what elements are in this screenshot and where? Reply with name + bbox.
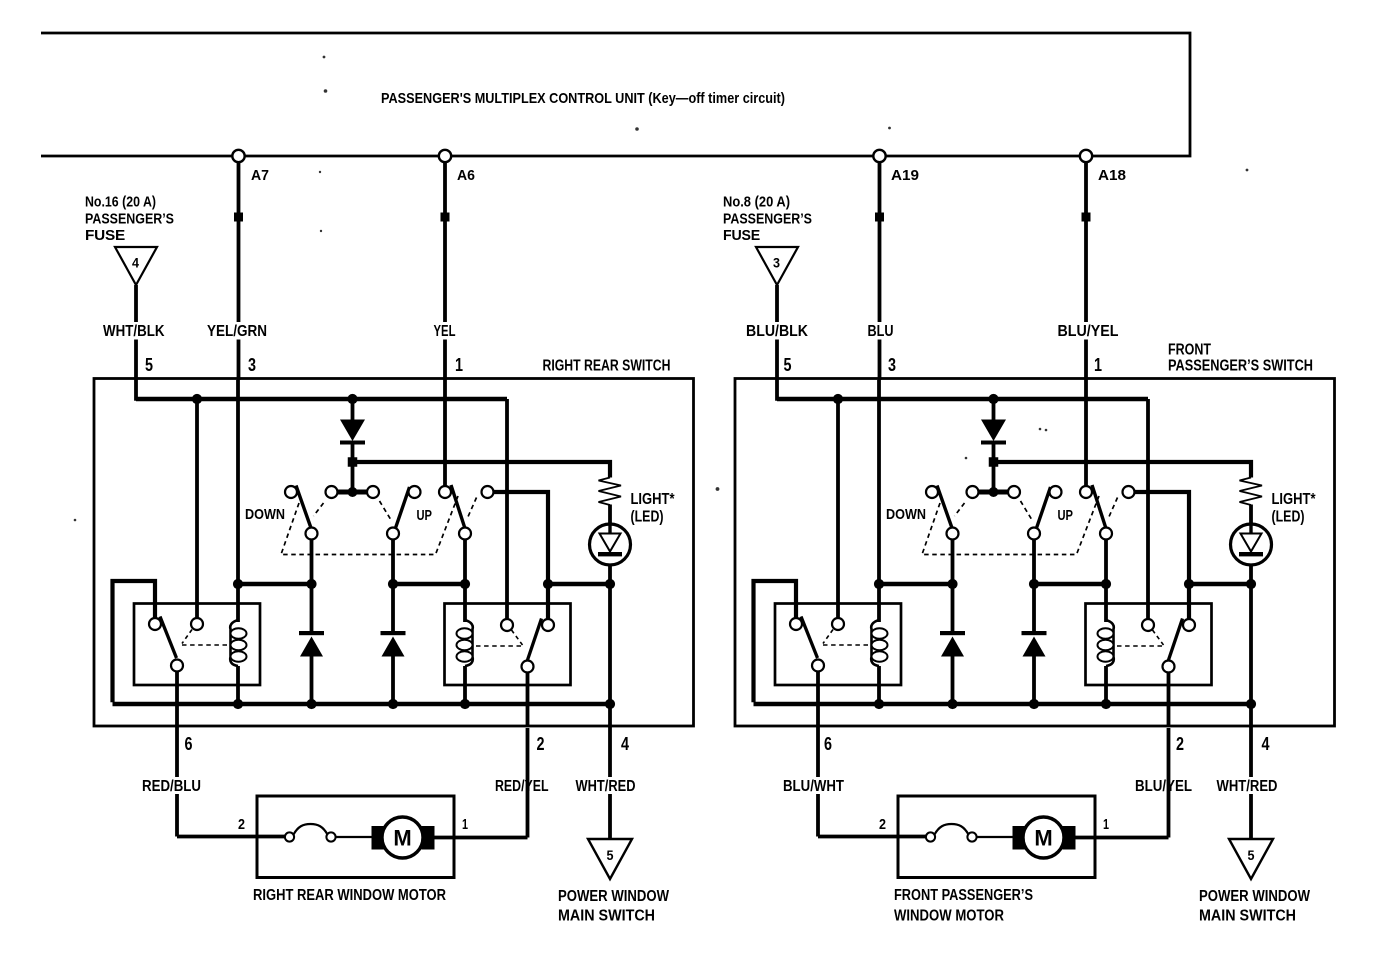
svg-text:FRONT PASSENGER’S: FRONT PASSENGER’S (894, 887, 1033, 904)
junction A19 wire (875, 213, 884, 222)
wire c6 to relay B top contact (1135, 492, 1189, 619)
relay B box (1086, 604, 1212, 686)
wire d2 down (1032, 540, 1036, 632)
diode D1 (top) (351, 399, 355, 420)
svg-text:PASSENGER’S SWITCH: PASSENGER’S SWITCH (1168, 358, 1313, 375)
wire fuse to switch pin 5 (775, 285, 779, 401)
relay A contact 2 (191, 618, 203, 630)
connector A6 (439, 150, 451, 162)
contact d2 (1028, 528, 1040, 540)
contact c4 (409, 486, 421, 498)
svg-text:MAIN SWITCH: MAIN SWITCH (558, 908, 655, 925)
diode D1 (top) (992, 399, 996, 420)
wire d2 down (391, 540, 395, 632)
junction d1 / mid bus (947, 579, 957, 589)
svg-text:WHT/BLK: WHT/BLK (103, 323, 165, 340)
contact d3 (459, 528, 471, 540)
connector A7 (232, 150, 244, 162)
wire pin5 bus (136, 397, 507, 402)
switch box: RIGHT REAR SWITCH (94, 379, 694, 727)
svg-text:4: 4 (1262, 734, 1270, 754)
diode D3 (1022, 631, 1047, 635)
svg-text:RIGHT REAR WINDOW MOTOR: RIGHT REAR WINDOW MOTOR (253, 887, 446, 904)
wire relay B common to pin 2 (526, 673, 530, 726)
relay B blade (1169, 619, 1183, 661)
svg-text:M: M (1034, 826, 1052, 851)
svg-text:No.8 (20 A): No.8 (20 A) (723, 195, 790, 211)
svg-text:LIGHT*: LIGHT* (1272, 491, 1317, 508)
diode D3 (381, 631, 406, 635)
junction diode D2 / bottom bus (306, 699, 316, 709)
LED indicator lamp (1231, 524, 1272, 565)
svg-text:DOWN: DOWN (245, 506, 285, 523)
wire mid bus segment 3 (548, 582, 610, 587)
svg-text:2: 2 (1176, 734, 1184, 754)
wire pin6 to motor (818, 835, 927, 839)
relay A common contact (171, 660, 183, 672)
svg-text:DOWN: DOWN (886, 506, 926, 523)
wire A7 / coil A (877, 380, 881, 622)
wire relay A feed (836, 399, 840, 618)
junction coil A / mid bus (874, 579, 884, 589)
relay B coil (465, 620, 473, 666)
svg-text:BLU/BLK: BLU/BLK (746, 323, 808, 340)
junction d2 / mid bus (1029, 579, 1039, 589)
relay B contact 2 (542, 619, 554, 631)
relay A box (775, 604, 901, 686)
relay A common contact (812, 660, 824, 672)
svg-text:YEL/GRN: YEL/GRN (207, 323, 267, 340)
wire mid bus segment 2 (1034, 582, 1106, 587)
wire motor to pin 2 (1076, 836, 1169, 840)
contact c6 (1123, 486, 1135, 498)
svg-text:No.16 (20 A): No.16 (20 A) (85, 195, 156, 211)
switch blade DOWN (937, 486, 952, 529)
svg-text:YEL: YEL (434, 323, 456, 340)
svg-text:PASSENGER'S MULTIPLEX CONTROL: PASSENGER'S MULTIPLEX CONTROL UNIT (Key—… (381, 90, 785, 107)
fuse symbol 4 (115, 247, 157, 285)
junction d3 / mid bus (460, 579, 470, 589)
svg-text:WHT/RED: WHT/RED (1217, 778, 1278, 795)
wire mid bus segment 2 (393, 582, 465, 587)
relay A coil (230, 620, 238, 666)
svg-text:BLU/YEL: BLU/YEL (1135, 778, 1192, 795)
junction A7 wire (234, 213, 243, 222)
wire d3 to relay B coil (1104, 540, 1108, 622)
svg-text:FRONT: FRONT (1168, 342, 1211, 359)
svg-text:(LED): (LED) (631, 509, 664, 526)
junction LED wire / bottom bus (605, 699, 615, 709)
scan artifacts (323, 56, 326, 59)
wire bottom bus (113, 702, 611, 707)
wire pin6 to motor (177, 835, 286, 839)
svg-text:MAIN SWITCH: MAIN SWITCH (1199, 908, 1296, 925)
bottom wire colour labels (139, 777, 205, 794)
wire light feed (994, 462, 1252, 478)
junction coil B / bottom bus (1101, 699, 1111, 709)
junction diode D3 / bottom bus (388, 699, 398, 709)
switch blade AUTO (451, 485, 465, 527)
svg-text:BLU/YEL: BLU/YEL (1058, 323, 1119, 340)
window motor box: FRONT PASSENGER’S (898, 796, 1095, 878)
svg-text:A18: A18 (1098, 167, 1126, 184)
relay B box (445, 604, 571, 686)
switch mechanical linkage (dashed) (281, 496, 458, 555)
junction bus/relay-A feed (192, 394, 202, 404)
relay A dashed linkage (823, 630, 833, 644)
junction c6-wire / mid bus (543, 579, 553, 589)
wire relay A common to pin 6 (175, 672, 179, 837)
wire c6 to relay B top contact (494, 492, 548, 619)
svg-text:1: 1 (1094, 355, 1102, 375)
junction LED / mid bus (1246, 579, 1256, 589)
motor M (372, 826, 387, 850)
wire A6 drop to UP contact (1084, 380, 1088, 486)
svg-text:5: 5 (607, 848, 614, 863)
wire bottom bus (754, 702, 1252, 707)
wire bus corner down to relay B contact (505, 399, 509, 619)
svg-text:BLU/WHT: BLU/WHT (783, 778, 844, 795)
contact row: centre junction (979, 490, 1009, 495)
svg-text:4: 4 (132, 256, 139, 271)
contact d2 (387, 528, 399, 540)
contact c3 (367, 486, 379, 498)
wire loop to relay A blade contact (754, 581, 797, 702)
svg-text:POWER WINDOW: POWER WINDOW (558, 888, 669, 905)
junction coil A / mid bus (233, 579, 243, 589)
switch blade UP (396, 487, 410, 528)
svg-text:1: 1 (455, 355, 463, 375)
junction coil B / bottom bus (460, 699, 470, 709)
wire colour labels (743, 322, 812, 340)
wire bus corner down to relay B contact (1146, 399, 1150, 619)
svg-text:5: 5 (1248, 848, 1255, 863)
svg-text:BLU: BLU (868, 323, 894, 340)
LED indicator lamp (590, 524, 631, 565)
connector A18 (1080, 150, 1092, 162)
motor connector pins (285, 832, 294, 841)
wire d3 to relay B coil (463, 540, 467, 622)
svg-text:(LED): (LED) (1272, 509, 1305, 526)
junction bus/relay-A feed (833, 394, 843, 404)
contact c6 (482, 486, 494, 498)
relay B dashed linkage (1153, 630, 1164, 645)
wire LED down to pin 4 / main switch (1249, 565, 1253, 840)
svg-text:M: M (393, 826, 411, 851)
relay A coil (871, 620, 879, 666)
contact c2 (326, 486, 338, 498)
svg-text:6: 6 (185, 734, 193, 754)
wire A19 drop (878, 158, 882, 380)
junction coil A / bottom bus (233, 699, 243, 709)
relay B common contact (522, 661, 534, 673)
wire pin5 bus (777, 397, 1148, 402)
fuse symbol 3 (756, 247, 798, 285)
svg-text:3: 3 (248, 355, 256, 375)
wire colour labels (100, 322, 169, 340)
svg-text:LIGHT*: LIGHT* (631, 491, 676, 508)
relay B contact 1 (1142, 619, 1154, 631)
wire mid bus segment 1 (879, 582, 953, 587)
wire relay A feed (195, 399, 199, 618)
contact d1 (947, 528, 959, 540)
contact row: centre junction (338, 490, 368, 495)
wire A18 drop (1084, 158, 1088, 380)
svg-text:UP: UP (1058, 507, 1074, 524)
junction LED wire / bottom bus (1246, 699, 1256, 709)
control unit box: PASSENGER'S MULTIPLEX CONTROL UNIT (41, 33, 1190, 156)
wire light feed (353, 462, 611, 478)
junction d3 / mid bus (1101, 579, 1111, 589)
diode D2 (940, 631, 965, 635)
svg-text:6: 6 (824, 734, 832, 754)
wire d1 down (310, 540, 314, 632)
connector 5: POWER WINDOW MAIN SWITCH (1229, 839, 1273, 879)
wire connector to motor (336, 836, 373, 838)
contact d1 (306, 528, 318, 540)
wire fuse to switch pin 5 (134, 285, 138, 401)
relay A dashed linkage (182, 630, 192, 644)
contact c3 (1008, 486, 1020, 498)
motor connector pins (926, 832, 935, 841)
wire motor to pin 2 (435, 836, 528, 840)
junction A18 wire (1082, 213, 1091, 222)
relay A box (134, 604, 260, 686)
switch blade DOWN (296, 486, 311, 529)
resistor (LED dropping) (599, 478, 622, 506)
wire A6 drop (443, 158, 447, 380)
contact c2 (967, 486, 979, 498)
svg-text:A6: A6 (457, 167, 475, 184)
junction diode D2 / bottom bus (947, 699, 957, 709)
svg-text:A19: A19 (891, 167, 919, 184)
contact c5 (1080, 486, 1092, 498)
junction bus/diode (347, 394, 357, 404)
wire resistor to LED (608, 505, 612, 527)
diode D2 (299, 631, 324, 635)
junction bus/diode (988, 394, 998, 404)
svg-text:PASSENGER’S: PASSENGER’S (85, 212, 174, 228)
wire d1 down (951, 540, 955, 632)
wire A7 drop (237, 158, 241, 380)
contact c5 (439, 486, 451, 498)
connector A19 (873, 150, 885, 162)
contact d3 (1100, 528, 1112, 540)
switch blade UP (1037, 487, 1051, 528)
bottom wire colour labels (780, 777, 848, 794)
junction diode/light feed (348, 457, 358, 467)
wire relay A common to pin 6 (816, 672, 820, 837)
junction A6 wire (441, 213, 450, 222)
junction coil A / bottom bus (874, 699, 884, 709)
junction d1 / mid bus (306, 579, 316, 589)
contact c1 (285, 486, 297, 498)
wire mid bus segment 3 (1189, 582, 1251, 587)
contact c4 (1050, 486, 1062, 498)
wire loop to relay A blade contact (113, 581, 156, 702)
svg-text:A7: A7 (251, 167, 269, 184)
svg-text:WHT/RED: WHT/RED (576, 778, 636, 795)
relay B blade (528, 619, 542, 661)
wire relay B common to pin 2 (1167, 673, 1171, 726)
svg-text:FUSE: FUSE (723, 228, 761, 244)
svg-text:2: 2 (879, 816, 886, 833)
relay B dashed linkage (512, 630, 523, 645)
connector 5: POWER WINDOW MAIN SWITCH (588, 839, 632, 879)
svg-text:5: 5 (784, 355, 792, 375)
svg-text:5: 5 (145, 355, 153, 375)
wire A7 / coil A (236, 380, 240, 622)
svg-text:POWER WINDOW: POWER WINDOW (1199, 888, 1310, 905)
junction c6-wire / mid bus (1184, 579, 1194, 589)
svg-text:4: 4 (621, 734, 629, 754)
switch mechanical linkage (dashed) (922, 496, 1099, 555)
svg-text:UP: UP (417, 507, 433, 524)
wire mid bus segment 1 (238, 582, 312, 587)
relay B contact 1 (501, 619, 513, 631)
relay B contact 2 (1183, 619, 1195, 631)
relay A blade (801, 617, 818, 659)
svg-text:2: 2 (238, 816, 245, 833)
switch box: FRONT PASSENGER’S SWITCH (735, 379, 1335, 727)
relay A contact 1 (790, 618, 802, 630)
junction diode/light feed (989, 457, 999, 467)
junction diode D3 / bottom bus (1029, 699, 1039, 709)
motor M (1013, 826, 1028, 850)
switch blade AUTO (1092, 485, 1106, 527)
svg-text:RED/BLU: RED/BLU (142, 778, 201, 795)
svg-text:RIGHT REAR SWITCH: RIGHT REAR SWITCH (543, 358, 671, 375)
svg-text:WINDOW MOTOR: WINDOW MOTOR (894, 908, 1004, 925)
wire LED down to pin 4 / main switch (608, 565, 612, 840)
relay B common contact (1163, 661, 1175, 673)
relay A contact 2 (832, 618, 844, 630)
svg-text:3: 3 (773, 256, 780, 271)
relay A contact 1 (149, 618, 161, 630)
svg-text:3: 3 (888, 355, 896, 375)
svg-text:2: 2 (537, 734, 545, 754)
svg-text:PASSENGER’S: PASSENGER’S (723, 212, 812, 228)
wire resistor to LED (1249, 505, 1253, 527)
wire A6 drop to UP contact (443, 380, 447, 486)
resistor (LED dropping) (1240, 478, 1263, 506)
junction LED / mid bus (605, 579, 615, 589)
relay A blade (160, 617, 177, 659)
relay B coil (1106, 620, 1114, 666)
svg-text:1: 1 (1103, 816, 1109, 833)
svg-text:1: 1 (462, 816, 468, 833)
wire connector to motor (977, 836, 1014, 838)
junction d2 / mid bus (388, 579, 398, 589)
window motor box: RIGHT REAR WINDOW MOTOR (257, 796, 454, 878)
svg-text:RED/YEL: RED/YEL (495, 778, 549, 795)
svg-text:FUSE: FUSE (85, 228, 126, 244)
contact c1 (926, 486, 938, 498)
